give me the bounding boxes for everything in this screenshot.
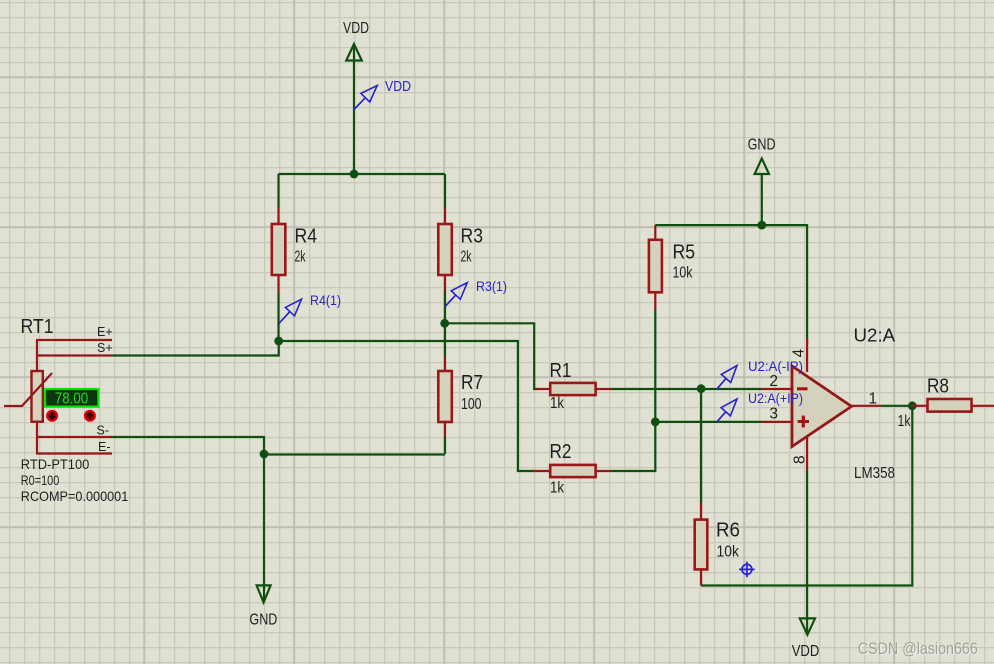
pin 4 wire (806, 338, 808, 372)
svg-text:RTD-PT100: RTD-PT100 (21, 456, 90, 472)
svg-text:2k: 2k (461, 249, 472, 266)
wire bridge node to R2 (279, 341, 534, 471)
minus sign (797, 387, 808, 390)
wire R3 bottom (444, 292, 446, 324)
blue net label R3(1) (445, 278, 507, 307)
svg-text:2: 2 (769, 373, 778, 390)
component RT1 RTD-PT100 (4, 316, 128, 504)
power VDD top symbol (346, 44, 362, 61)
pin R5 bottom (654, 292, 656, 310)
svg-text:R1: R1 (550, 360, 572, 382)
display RT1 value (45, 389, 98, 407)
svg-text:R4: R4 (295, 226, 318, 248)
svg-text:GND: GND (249, 612, 277, 629)
wire op-amp output (881, 405, 912, 407)
power GND bottom symbol (257, 585, 271, 602)
svg-text:10k: 10k (717, 544, 740, 561)
node junction output (908, 401, 917, 410)
svg-text:8: 8 (792, 455, 809, 464)
svg-text:E+: E+ (97, 325, 113, 339)
resistor R2 (533, 441, 611, 497)
resistor R4 (272, 224, 317, 275)
wire R7 bottom (444, 437, 446, 454)
wire R3 top (444, 174, 446, 209)
wire R2 up to pin3 node (611, 310, 655, 471)
svg-text:VDD: VDD (385, 78, 411, 95)
resistor R5 (649, 240, 695, 292)
pin R6 top (700, 503, 702, 520)
node junction R3 bottom (440, 319, 449, 328)
power GND top right symbol (755, 159, 769, 175)
pin R3 top (444, 209, 446, 226)
svg-text:S+: S+ (97, 341, 113, 355)
svg-text:E-: E- (98, 440, 111, 454)
svg-text:U2:A(+IP): U2:A(+IP) (748, 390, 803, 406)
pin R6 bottom (700, 569, 702, 585)
body RT1 (32, 371, 43, 422)
wire R3 node down (444, 323, 446, 356)
svg-text:R8: R8 (927, 376, 949, 398)
svg-text:78.00: 78.00 (55, 390, 89, 407)
wire node to R7 bottom (264, 453, 445, 455)
blue net label U2:A(+IP) (717, 390, 803, 422)
node junction pin3 (651, 418, 660, 427)
svg-text:S-: S- (97, 424, 110, 438)
wire pin 8 to VDD (806, 471, 808, 634)
svg-text:R3(1): R3(1) (476, 278, 507, 294)
svg-text:R5: R5 (673, 242, 696, 264)
plus sign (798, 420, 809, 423)
svg-text:VDD: VDD (343, 20, 369, 37)
pin RT1 E- (36, 452, 112, 454)
wire R4 bottom (277, 293, 279, 341)
node junction VDD rail (350, 170, 359, 179)
svg-text:2k: 2k (295, 249, 306, 266)
button RT1 down (46, 410, 58, 422)
button RT1 up (84, 410, 96, 422)
svg-text:100: 100 (461, 396, 482, 413)
svg-text:U2:A: U2:A (854, 325, 896, 346)
node junction GND rail (757, 221, 766, 230)
svg-text:1k: 1k (550, 480, 564, 497)
wire pin3 (655, 421, 761, 423)
svg-text:R2: R2 (550, 441, 572, 463)
wire R1 to op-amp (611, 388, 761, 390)
blue net label R4(1) (279, 292, 341, 324)
power VDD bottom symbol (800, 618, 815, 634)
wire R3 node to R1 (445, 323, 538, 389)
wire S- run (112, 437, 264, 454)
pin 2 stub (761, 388, 792, 390)
wire R4 top (277, 174, 279, 209)
pin RT1 E+ (36, 339, 112, 341)
svg-text:4: 4 (791, 349, 808, 358)
wire GND rail (655, 225, 807, 344)
svg-text:RT1: RT1 (21, 316, 54, 338)
svg-text:R4(1): R4(1) (310, 292, 341, 308)
svg-text:LM358: LM358 (854, 465, 895, 482)
pin RT1 S+ (36, 340, 112, 371)
svg-text:RCOMP=0.000001: RCOMP=0.000001 (21, 488, 129, 504)
wire feedback (701, 406, 912, 586)
svg-text:10k: 10k (673, 265, 693, 282)
svg-text:R7: R7 (461, 372, 483, 394)
resistor R7 (438, 371, 483, 422)
pin R4 top (277, 209, 279, 226)
op-amp body (792, 366, 852, 447)
resistor R8 (898, 376, 994, 431)
pin 1 stub (852, 405, 882, 407)
wire R6 drop (700, 389, 702, 503)
svg-text:GND: GND (748, 137, 776, 154)
pin 3 stub (761, 421, 792, 423)
wire S+ run (112, 341, 279, 356)
node junction S- E- (260, 450, 269, 459)
watermark CSDN (858, 639, 979, 659)
node junction S+ R4 (274, 337, 283, 346)
resistor R6 (695, 520, 740, 570)
blue net label U2:A(-IP) (717, 358, 803, 389)
blue net label VDD (354, 78, 412, 110)
wire GND drop (263, 454, 265, 600)
thermistor symbol RT1 (4, 373, 52, 406)
svg-text:1k: 1k (550, 395, 564, 412)
pin RT1 S- (36, 422, 112, 454)
pin R7 bottom (444, 422, 446, 437)
wire VDD stub (353, 47, 355, 174)
resistor R3 (438, 224, 483, 275)
svg-text:R0=100: R0=100 (21, 472, 60, 488)
resistor R1 (536, 360, 611, 412)
pin R7 top (444, 356, 446, 371)
svg-text:1k: 1k (898, 413, 911, 430)
svg-text:1: 1 (869, 390, 878, 407)
svg-text:3: 3 (769, 406, 778, 423)
pin R5 top (654, 225, 656, 240)
svg-text:R6: R6 (716, 520, 740, 542)
wire GND stub top right (761, 174, 763, 225)
node junction R6 tap (697, 384, 706, 393)
origin marker (739, 562, 755, 578)
wire top rail VDD (279, 173, 446, 175)
svg-text:U2:A(-IP): U2:A(-IP) (748, 358, 803, 374)
pin 8 stub (806, 436, 808, 471)
op-amp U2:A (761, 325, 896, 482)
svg-text:R3: R3 (461, 226, 484, 248)
svg-text:VDD: VDD (792, 643, 820, 660)
svg-text:CSDN @lasion666: CSDN @lasion666 (858, 639, 978, 658)
pin R3 bottom (444, 275, 446, 292)
pin R4 bottom (277, 275, 279, 293)
